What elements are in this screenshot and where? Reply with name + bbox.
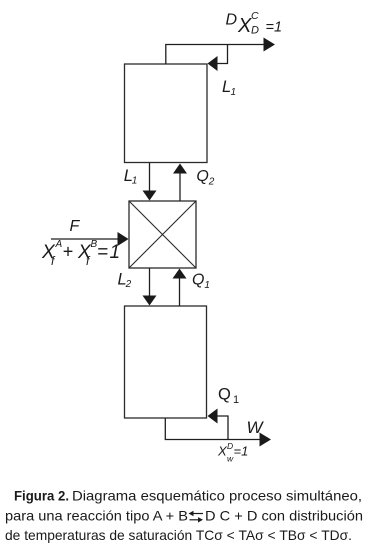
- svg-text:Figura 2.: Figura 2.: [14, 488, 69, 504]
- svg-text:=1: =1: [234, 444, 249, 459]
- svg-text:1: 1: [110, 242, 121, 263]
- svg-text:D: D: [227, 441, 233, 451]
- svg-text:X: X: [237, 15, 252, 37]
- svg-text:C: C: [251, 10, 259, 22]
- svg-text:1: 1: [132, 176, 138, 187]
- svg-text:1: 1: [233, 394, 239, 406]
- svg-text:1: 1: [231, 87, 237, 98]
- svg-text:D C + D con distribución: D C + D con distribución: [205, 508, 363, 524]
- svg-text:para una reacción tipo A + B: para una reacción tipo A + B: [5, 508, 188, 524]
- svg-text:1: 1: [204, 280, 210, 291]
- svg-text:Diagrama esquemático proceso s: Diagrama esquemático proceso simultáneo,: [72, 488, 362, 504]
- svg-text:de temperaturas de saturación: de temperaturas de saturación TCσ < TAσ …: [5, 527, 352, 543]
- svg-text:=: =: [97, 242, 108, 263]
- svg-text:A: A: [55, 239, 63, 250]
- svg-text:2: 2: [125, 279, 132, 290]
- svg-text:=1: =1: [266, 19, 283, 35]
- svg-text:Q: Q: [196, 168, 208, 185]
- svg-text:F: F: [70, 218, 81, 235]
- svg-text:W: W: [247, 418, 265, 437]
- svg-text:+: +: [63, 242, 74, 262]
- svg-text:D: D: [251, 25, 259, 37]
- svg-text:D: D: [226, 12, 238, 29]
- svg-text:Q: Q: [218, 386, 231, 404]
- svg-text:Q: Q: [192, 272, 204, 289]
- svg-text:f: f: [51, 254, 56, 268]
- svg-text:2: 2: [208, 177, 215, 188]
